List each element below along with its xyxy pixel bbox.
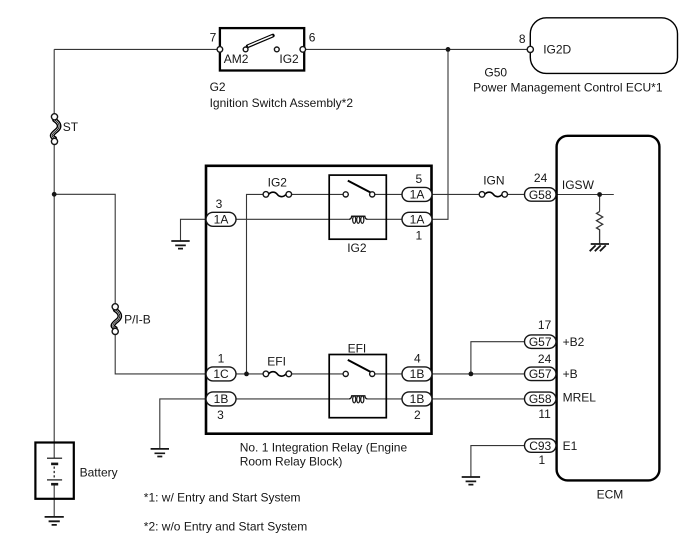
svg-text:1: 1 — [538, 453, 545, 467]
svg-text:1C: 1C — [213, 367, 229, 381]
svg-text:IGSW: IGSW — [562, 178, 595, 192]
svg-text:1: 1 — [218, 352, 225, 366]
svg-text:11: 11 — [538, 407, 551, 421]
svg-text:G57: G57 — [529, 335, 552, 349]
svg-text:P/I-B: P/I-B — [124, 312, 151, 326]
svg-text:IG2: IG2 — [268, 176, 288, 190]
svg-text:1A: 1A — [410, 188, 425, 202]
svg-text:+B2: +B2 — [563, 335, 585, 349]
svg-text:1A: 1A — [214, 213, 229, 227]
svg-text:E1: E1 — [563, 439, 578, 453]
svg-text:2: 2 — [414, 408, 421, 422]
svg-text:AM2: AM2 — [224, 52, 249, 66]
svg-text:EFI: EFI — [267, 355, 286, 369]
svg-text:ST: ST — [63, 120, 79, 134]
svg-text:IG2: IG2 — [279, 52, 299, 66]
svg-text:No. 1 Integration Relay (Engin: No. 1 Integration Relay (Engine — [240, 440, 408, 454]
svg-text:17: 17 — [538, 318, 552, 332]
svg-text:Room Relay Block): Room Relay Block) — [240, 454, 343, 468]
svg-text:G58: G58 — [529, 188, 552, 202]
svg-text:G57: G57 — [529, 367, 552, 381]
svg-text:24: 24 — [534, 171, 548, 185]
svg-text:1: 1 — [416, 229, 423, 243]
svg-text:*2: w/o Entry and Start System: *2: w/o Entry and Start System — [144, 519, 307, 533]
svg-text:4: 4 — [414, 352, 421, 366]
svg-text:EFI: EFI — [348, 341, 367, 355]
svg-text:3: 3 — [217, 408, 224, 422]
svg-text:G50: G50 — [484, 66, 507, 80]
svg-text:ECM: ECM — [597, 487, 624, 501]
svg-text:8: 8 — [519, 32, 526, 46]
svg-text:1B: 1B — [214, 392, 229, 406]
svg-text:G58: G58 — [529, 392, 552, 406]
svg-text:3: 3 — [216, 197, 223, 211]
svg-text:24: 24 — [538, 352, 552, 366]
svg-text:Battery: Battery — [80, 465, 118, 479]
svg-text:1B: 1B — [410, 367, 425, 381]
svg-text:1A: 1A — [410, 213, 425, 227]
svg-text:Power Management Control ECU*1: Power Management Control ECU*1 — [473, 81, 663, 95]
svg-text:+B: +B — [563, 367, 578, 381]
svg-text:7: 7 — [210, 31, 217, 45]
svg-text:Ignition Switch Assembly*2: Ignition Switch Assembly*2 — [210, 96, 354, 110]
svg-text:IG2: IG2 — [347, 241, 367, 255]
svg-text:G2: G2 — [210, 80, 226, 94]
svg-text:IGN: IGN — [483, 174, 504, 188]
svg-text:IG2D: IG2D — [543, 42, 571, 56]
svg-text:*1: w/ Entry and Start System: *1: w/ Entry and Start System — [144, 491, 301, 505]
svg-text:1B: 1B — [410, 392, 425, 406]
svg-text:6: 6 — [309, 31, 316, 45]
svg-text:5: 5 — [416, 172, 423, 186]
svg-text:C93: C93 — [529, 439, 551, 453]
svg-text:MREL: MREL — [563, 390, 597, 404]
